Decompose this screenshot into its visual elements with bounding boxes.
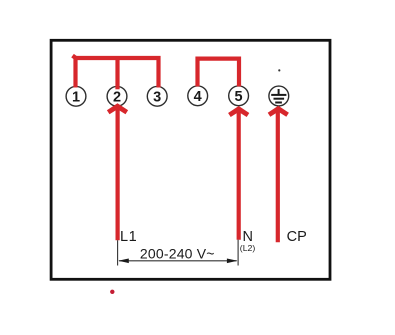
terminal 1 [66,86,86,106]
dimension extension line left [117,240,119,265]
svg-text:(L2): (L2) [240,243,256,253]
svg-text:5: 5 [235,89,243,105]
svg-text:3: 3 [153,90,161,106]
wire N with arrow into terminal 5 [228,106,249,240]
svg-text:CP: CP [287,229,307,245]
terminal PE (protective earth) [269,86,289,106]
earth symbol bar 1 [271,94,286,96]
corner nub at left end of bus [73,55,76,59]
stray dark dot [278,69,280,71]
earth symbol stem [278,89,280,94]
terminal 3 [147,86,167,106]
wire: jumper bus linking terminals 4-5 [198,59,240,87]
earth symbol bar 3 [275,102,282,104]
svg-text:L1: L1 [120,229,137,245]
svg-text:2: 2 [113,90,121,106]
svg-text:4: 4 [194,89,202,105]
red dot marker [110,290,114,294]
earth symbol bar 2 [274,98,285,100]
dimension line with outward arrowheads [118,259,237,264]
wire CP earth with arrow into terminal PE [268,106,289,242]
terminal 2 [107,86,127,106]
dimension extension line right [237,240,239,266]
svg-text:1: 1 [72,90,80,106]
svg-text:200-240 V~: 200-240 V~ [140,245,215,261]
wire: jumper bus linking terminals 1-2-3 [73,55,159,89]
terminal 4 [188,86,208,106]
wire L1 with arrow into terminal 2 [107,103,128,240]
terminal 5 [229,86,249,106]
